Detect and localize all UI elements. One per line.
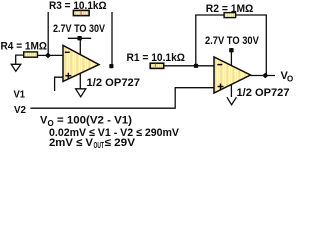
svg-text:OUT: OUT (94, 141, 105, 150)
node inverting A2 (194, 64, 198, 68)
svg-text:= 100(V2 - V1): = 100(V2 - V1) (57, 115, 132, 127)
resistor R2 (224, 13, 236, 18)
label R3 value (49, 0, 107, 12)
resistor R3 (73, 10, 89, 15)
label supply2 (205, 35, 259, 47)
label V1 (14, 89, 26, 101)
label formula gain (40, 115, 132, 129)
wire V2 to noninverting input A2 (31, 88, 215, 109)
ground G2 (76, 89, 86, 97)
label formula output range (49, 137, 136, 150)
wire R4 to inverting input (38, 54, 64, 56)
node supply1 (77, 36, 81, 40)
label R4 value (1, 41, 48, 53)
node output A1 (109, 64, 113, 68)
wire feedback left vertical (47, 12, 49, 56)
label R1 value (127, 52, 186, 64)
op-amp U2 (214, 57, 251, 93)
svg-text:2.7V TO 30V: 2.7V TO 30V (53, 23, 106, 35)
resistor R1 (150, 63, 164, 68)
svg-text:1/2 OP727: 1/2 OP727 (237, 87, 290, 99)
svg-text:R4 = 1MΩ: R4 = 1MΩ (1, 41, 48, 53)
wire feedback right vertical (111, 12, 113, 66)
svg-text:1/2 OP727: 1/2 OP727 (87, 77, 141, 89)
label V2 (14, 104, 26, 116)
svg-text:2.7V TO 30V: 2.7V TO 30V (205, 35, 259, 47)
svg-text:O: O (287, 75, 293, 84)
wire output A2 (251, 75, 276, 77)
wire supply1 bar (68, 37, 91, 39)
ground G3 (227, 97, 237, 105)
label supply1 (53, 23, 106, 35)
label U1 name (87, 77, 141, 89)
svg-text:V1: V1 (14, 89, 26, 101)
wire R1 to inverting input A2 (164, 65, 214, 67)
resistor R4 (24, 52, 38, 57)
op-amp U1 (63, 45, 99, 81)
node inverting A1 (45, 52, 51, 58)
node output A2 (262, 73, 268, 79)
label formula input range (49, 127, 180, 139)
wire supply1 to ground through opamp (79, 38, 81, 89)
svg-text:V2: V2 (14, 104, 26, 116)
svg-text:2mV ≤ V: 2mV ≤ V (49, 137, 94, 149)
label R2 value (206, 3, 254, 15)
label VO (281, 70, 294, 84)
wire R2 top (196, 15, 266, 76)
wire noninverting input A1 (55, 77, 63, 91)
wire R4 left (16, 55, 24, 64)
ground G1 (11, 64, 21, 71)
svg-text:R1 = 10.1kΩ: R1 = 10.1kΩ (127, 52, 186, 64)
label U2 name (237, 87, 290, 99)
svg-text:≤ 29V: ≤ 29V (105, 137, 136, 149)
wire supply2 to ground through opamp (230, 50, 232, 97)
node supply2 (229, 48, 233, 52)
